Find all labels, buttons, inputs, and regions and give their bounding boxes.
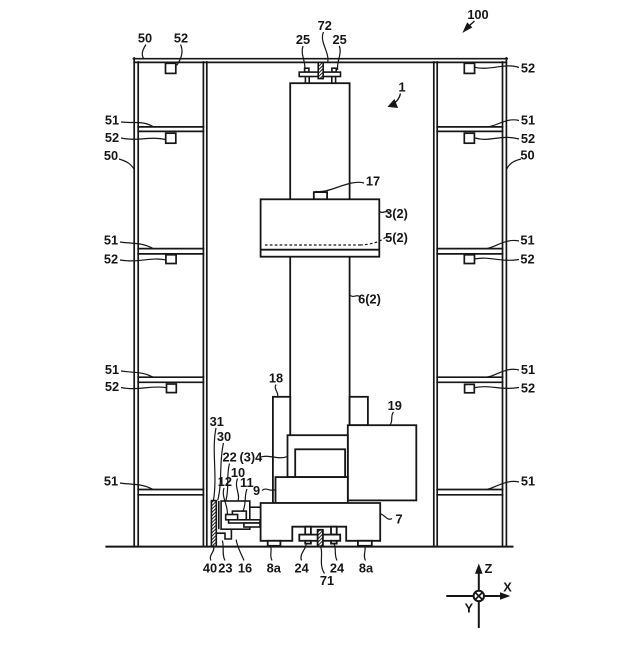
svg-text:11: 11 — [240, 475, 254, 490]
svg-text:(3)4: (3)4 — [240, 450, 264, 465]
svg-text:71: 71 — [320, 573, 334, 588]
svg-text:50: 50 — [138, 31, 152, 46]
svg-text:51: 51 — [104, 233, 118, 248]
svg-text:72: 72 — [318, 18, 332, 33]
svg-text:51: 51 — [520, 233, 534, 248]
svg-text:8a: 8a — [359, 561, 374, 576]
svg-text:51: 51 — [521, 362, 535, 377]
svg-text:8a: 8a — [267, 561, 282, 576]
svg-text:52: 52 — [521, 131, 535, 146]
svg-text:X: X — [503, 580, 512, 595]
svg-text:3(2): 3(2) — [385, 206, 408, 221]
svg-text:51: 51 — [105, 362, 119, 377]
svg-text:50: 50 — [520, 148, 534, 163]
svg-text:24: 24 — [294, 561, 309, 576]
svg-text:40: 40 — [203, 561, 217, 576]
svg-text:Y: Y — [465, 601, 474, 616]
svg-text:6(2): 6(2) — [358, 292, 381, 307]
svg-text:31: 31 — [210, 414, 224, 429]
svg-text:22: 22 — [222, 449, 236, 464]
svg-text:5(2): 5(2) — [385, 230, 408, 245]
svg-text:18: 18 — [269, 371, 283, 386]
svg-text:52: 52 — [521, 380, 535, 395]
svg-text:Z: Z — [484, 561, 492, 576]
svg-text:51: 51 — [105, 113, 119, 128]
svg-text:52: 52 — [105, 379, 119, 394]
svg-text:19: 19 — [388, 398, 402, 413]
svg-text:52: 52 — [520, 252, 534, 267]
svg-text:100: 100 — [467, 7, 488, 22]
svg-text:25: 25 — [332, 32, 346, 47]
svg-text:12: 12 — [218, 474, 232, 489]
svg-text:25: 25 — [296, 32, 310, 47]
svg-text:7: 7 — [395, 512, 402, 527]
svg-text:52: 52 — [105, 130, 119, 145]
svg-text:50: 50 — [104, 148, 118, 163]
svg-text:1: 1 — [398, 80, 405, 95]
svg-text:17: 17 — [366, 174, 380, 189]
svg-text:52: 52 — [104, 252, 118, 267]
svg-text:51: 51 — [104, 474, 118, 489]
svg-text:52: 52 — [174, 31, 188, 46]
svg-text:23: 23 — [218, 561, 232, 576]
svg-text:52: 52 — [521, 61, 535, 76]
svg-text:30: 30 — [217, 429, 231, 444]
svg-text:9: 9 — [253, 483, 260, 498]
svg-text:51: 51 — [521, 474, 535, 489]
svg-text:16: 16 — [238, 561, 252, 576]
svg-text:51: 51 — [521, 113, 535, 128]
